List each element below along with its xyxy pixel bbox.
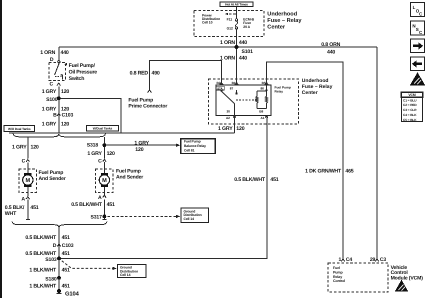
svg-text:M: M [25,178,30,184]
svg-text:A2: A2 [226,116,230,120]
svg-text:120: 120 [61,89,69,95]
svg-text:Underhood: Underhood [267,10,297,17]
svg-text:1 GRY: 1 GRY [12,145,27,151]
svg-text:S180: S180 [45,277,57,283]
svg-text:120: 120 [31,145,39,151]
svg-text:Control: Control [333,279,345,283]
svg-text:451: 451 [107,202,115,208]
svg-text:D: D [53,243,57,249]
svg-text:C5 = BLK: C5 = BLK [403,118,417,122]
svg-text:440: 440 [239,56,247,62]
svg-text:87A: 87A [217,86,223,90]
svg-text:Fuse – Relay: Fuse – Relay [267,17,302,24]
svg-text:G12: G12 [227,26,233,30]
svg-text:Hot At All Times: Hot At All Times [225,3,248,7]
svg-text:465: 465 [345,168,353,174]
svg-text:C4: C4 [346,257,353,263]
svg-text:A: A [21,196,25,202]
svg-text:Cell 14: Cell 14 [184,217,195,221]
svg-text:451: 451 [62,251,70,257]
svg-text:S100: S100 [46,97,58,103]
svg-text:F11: F11 [227,17,233,21]
svg-text:0.5 BLK/WHT: 0.5 BLK/WHT [234,177,266,183]
svg-text:VCM: VCM [408,93,416,97]
svg-text:Center: Center [267,24,286,30]
svg-text:S101: S101 [242,49,254,55]
svg-text:440: 440 [239,40,247,46]
svg-text:C3: C3 [380,257,387,263]
svg-text:120: 120 [107,151,115,157]
svg-text:1 GRY: 1 GRY [42,89,57,95]
svg-text:120: 120 [135,147,143,153]
svg-text:Cell 81: Cell 81 [184,148,195,152]
svg-text:Prime Connector: Prime Connector [128,103,167,109]
svg-text:120: 120 [61,121,69,127]
svg-text:1: 1 [339,257,342,263]
svg-text:440: 440 [61,50,69,56]
svg-text:Module (VCM): Module (VCM) [391,275,424,281]
svg-text:0.5 BLK/WHT: 0.5 BLK/WHT [25,235,57,241]
svg-text:B: B [53,112,57,118]
svg-text:0.5 BLK/: 0.5 BLK/ [5,205,25,211]
svg-text:S103: S103 [45,257,57,263]
svg-text:Oil Pressure: Oil Pressure [69,69,98,75]
svg-text:Switch: Switch [69,76,85,82]
svg-text:Cell 14: Cell 14 [120,273,131,277]
svg-text:W/Dual Tanks: W/Dual Tanks [93,127,113,131]
svg-text:W/O Dual Tanks: W/O Dual Tanks [8,127,31,131]
svg-text:C3 = CLR: C3 = CLR [403,108,417,112]
svg-text:451: 451 [62,267,70,273]
svg-text:451: 451 [30,205,38,211]
svg-text:1 BLK/WHT: 1 BLK/WHT [29,267,57,273]
svg-text:29: 29 [370,257,376,263]
svg-text:Fuel Pump/: Fuel Pump/ [69,63,96,69]
svg-text:1 GRY: 1 GRY [42,121,57,127]
svg-text:C: C [22,159,26,165]
svg-text:1 ORN: 1 ORN [220,56,235,62]
svg-text:0.8 RED: 0.8 RED [130,70,149,76]
svg-text:1 BLK/WHT: 1 BLK/WHT [29,283,57,289]
svg-text:1 ORN: 1 ORN [220,40,235,46]
svg-text:C2 = RED: C2 = RED [403,103,417,107]
svg-text:M: M [102,178,107,184]
svg-text:451: 451 [270,177,278,183]
svg-text:C103: C103 [62,243,74,249]
svg-text:S317: S317 [91,214,103,220]
svg-text:G104: G104 [65,290,80,297]
svg-text:C1 = BLU: C1 = BLU [403,98,417,102]
svg-text:C: C [49,82,53,88]
svg-text:1 DK GRN/WHT: 1 DK GRN/WHT [305,168,342,174]
svg-text:1 GRY: 1 GRY [134,141,149,147]
svg-text:And Sender: And Sender [39,176,66,182]
svg-text:120: 120 [236,126,244,132]
svg-text:C: C [98,159,102,165]
svg-text:WHT: WHT [5,211,17,217]
svg-text:A1: A1 [261,116,265,120]
svg-text:86: 86 [261,87,265,91]
svg-text:A: A [98,195,102,201]
svg-text:B8: B8 [259,109,263,113]
svg-text:Cell 10: Cell 10 [202,21,213,25]
svg-text:440: 440 [327,50,335,56]
svg-text:451: 451 [62,283,70,289]
svg-text:1 ORN: 1 ORN [40,50,55,56]
svg-text:20 A: 20 A [243,25,250,29]
svg-text:C103: C103 [62,112,74,118]
svg-text:451: 451 [62,235,70,241]
svg-text:1 GRY: 1 GRY [87,151,102,157]
svg-text:490: 490 [152,70,160,76]
svg-text:Center: Center [302,90,318,96]
svg-text:87: 87 [230,86,234,90]
svg-text:And Sender: And Sender [116,174,143,180]
svg-text:Relay: Relay [275,89,284,93]
svg-text:30: 30 [226,109,230,113]
svg-text:0.8 ORN: 0.8 ORN [321,42,340,48]
svg-text:1 GRY: 1 GRY [218,126,233,132]
svg-text:C4 = BLK: C4 = BLK [403,113,417,117]
svg-text:S318: S318 [87,143,99,149]
svg-text:0.5 BLK/WHT: 0.5 BLK/WHT [71,202,103,208]
